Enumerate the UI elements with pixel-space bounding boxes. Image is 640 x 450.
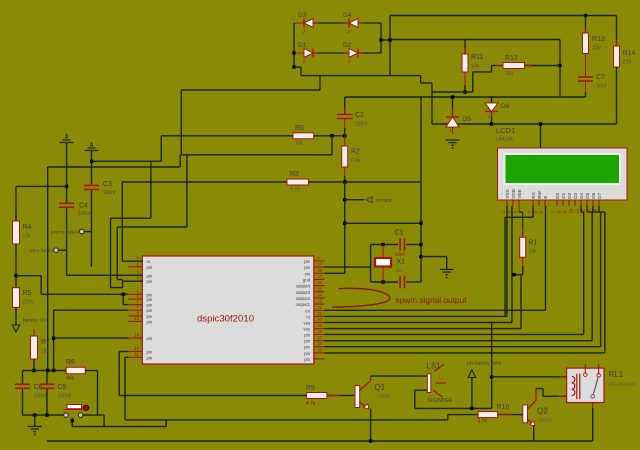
- svg-text:26: 26: [317, 280, 323, 285]
- svg-text:R11: R11: [471, 54, 483, 61]
- svg-text:output2: output2: [296, 296, 311, 301]
- svg-text:11: 11: [134, 352, 139, 357]
- svg-text:R3: R3: [290, 171, 299, 178]
- svg-text:C2: C2: [355, 112, 364, 119]
- svg-text:D6: D6: [591, 192, 596, 198]
- svg-text:21: 21: [317, 311, 323, 316]
- svg-text:pin: pin: [304, 259, 310, 264]
- svg-text:10uf: 10uf: [596, 84, 607, 90]
- svg-text:m: m: [147, 259, 151, 264]
- svg-text:17: 17: [317, 335, 323, 340]
- svg-text:VSS: VSS: [505, 189, 510, 198]
- svg-text:19: 19: [317, 323, 323, 328]
- svg-text:25: 25: [317, 286, 323, 291]
- svg-text:D6: D6: [501, 103, 510, 110]
- svg-text:pin: pin: [304, 345, 310, 350]
- svg-text:pin: pin: [147, 336, 153, 341]
- svg-text:E: E: [543, 196, 548, 199]
- svg-text:pin: pin: [304, 265, 310, 270]
- svg-text:pin: pin: [147, 314, 153, 319]
- svg-text:13: 13: [134, 316, 140, 321]
- svg-text:6.8k: 6.8k: [351, 158, 361, 164]
- svg-text:lm7805: lm7805: [376, 198, 392, 204]
- svg-text:15: 15: [317, 347, 323, 352]
- svg-text:D1: D1: [561, 192, 566, 198]
- svg-text:C3: C3: [103, 181, 112, 188]
- svg-text:D4: D4: [343, 12, 352, 19]
- svg-text:100nF: 100nF: [34, 394, 48, 400]
- svg-text:D0: D0: [555, 192, 560, 198]
- svg-text:D5: D5: [463, 116, 472, 123]
- svg-text:15pF: 15pF: [395, 252, 406, 257]
- svg-text:D7: D7: [597, 192, 602, 198]
- svg-text:pin: pin: [304, 351, 310, 356]
- svg-text:R9: R9: [306, 385, 315, 392]
- svg-text:C4: C4: [79, 203, 88, 210]
- svg-text:23: 23: [317, 299, 323, 304]
- svg-text:D2: D2: [567, 192, 572, 198]
- svg-text:spwm signal output: spwm signal output: [395, 295, 467, 305]
- svg-text:R13: R13: [592, 36, 605, 43]
- svg-text:RS: RS: [531, 192, 536, 199]
- svg-text:10: 10: [569, 208, 574, 213]
- svg-text:battery 12v: battery 12v: [23, 318, 47, 324]
- svg-text:220k: 220k: [23, 300, 34, 306]
- svg-text:OZ-SH-112D: OZ-SH-112D: [609, 382, 637, 388]
- svg-text:vss: vss: [304, 327, 310, 332]
- svg-text:en: en: [305, 308, 310, 313]
- svg-text:20: 20: [317, 317, 323, 322]
- svg-text:C5: C5: [58, 384, 67, 391]
- svg-text:LCD1: LCD1: [496, 126, 515, 135]
- svg-text:14: 14: [134, 333, 140, 338]
- svg-text:D3: D3: [298, 12, 307, 19]
- svg-text:D1: D1: [298, 42, 307, 49]
- svg-text:100nF: 100nF: [58, 394, 72, 400]
- svg-text:pin: pin: [147, 350, 153, 355]
- svg-text:R1: R1: [529, 240, 538, 247]
- svg-text:pin: pin: [147, 297, 153, 302]
- svg-text:22: 22: [317, 305, 323, 310]
- svg-text:pin: pin: [147, 308, 153, 313]
- svg-text:dspic30f2010: dspic30f2010: [197, 314, 254, 325]
- svg-text:R4: R4: [23, 224, 32, 231]
- svg-text:10k: 10k: [471, 64, 480, 70]
- svg-text:pin: pin: [147, 273, 153, 278]
- svg-text:10k: 10k: [529, 249, 538, 255]
- svg-text:LM016L: LM016L: [496, 137, 514, 143]
- svg-text:18: 18: [317, 329, 323, 334]
- svg-text:150: 150: [505, 71, 514, 77]
- svg-text:vin: vin: [305, 271, 311, 276]
- svg-text:VEE: VEE: [517, 189, 522, 198]
- svg-text:12k: 12k: [23, 234, 32, 240]
- svg-text:0.1: 0.1: [397, 268, 404, 273]
- svg-text:pin: pin: [147, 265, 153, 270]
- svg-text:RL1: RL1: [609, 370, 624, 379]
- svg-text:output4: output4: [296, 284, 311, 289]
- svg-text:12v battery point: 12v battery point: [466, 361, 502, 367]
- svg-text:4.7k: 4.7k: [290, 187, 300, 193]
- svg-text:RW: RW: [537, 190, 542, 198]
- svg-text:R8: R8: [66, 359, 75, 366]
- svg-text:4.7k: 4.7k: [306, 401, 316, 407]
- svg-text:output1: output1: [296, 302, 311, 307]
- svg-text:27: 27: [317, 274, 323, 279]
- svg-text:pin: pin: [147, 279, 153, 284]
- svg-text:100nf: 100nf: [103, 190, 116, 196]
- svg-text:pin: pin: [147, 355, 153, 360]
- svg-text:22k: 22k: [623, 60, 632, 66]
- svg-text:c1815: c1815: [539, 418, 552, 424]
- svg-text:24: 24: [317, 293, 323, 298]
- svg-text:R10: R10: [497, 404, 510, 411]
- svg-text:pin: pin: [304, 339, 310, 344]
- svg-text:C1: C1: [395, 230, 404, 237]
- svg-text:10k: 10k: [295, 141, 304, 147]
- svg-text:10: 10: [317, 262, 323, 267]
- svg-text:100nf: 100nf: [78, 211, 91, 217]
- svg-text:pin: pin: [304, 357, 310, 362]
- svg-text:Q2: Q2: [537, 407, 548, 416]
- svg-text:28: 28: [317, 268, 323, 273]
- svg-text:R5: R5: [23, 290, 32, 297]
- svg-text:C7: C7: [596, 74, 605, 81]
- svg-text:X1: X1: [397, 259, 406, 266]
- svg-text:point p lm324: point p lm324: [51, 230, 79, 235]
- svg-text:10k: 10k: [41, 349, 50, 355]
- svg-text:output3: output3: [296, 290, 311, 295]
- svg-text:D5: D5: [585, 192, 590, 198]
- svg-text:100nf: 100nf: [355, 122, 368, 128]
- svg-text:R6: R6: [295, 125, 304, 132]
- svg-text:LS1: LS1: [427, 362, 442, 371]
- svg-text:16: 16: [317, 341, 323, 346]
- svg-text:11: 11: [575, 208, 580, 213]
- svg-text:pin k lm324: pin k lm324: [30, 248, 54, 253]
- svg-text:D4: D4: [579, 192, 584, 198]
- svg-text:R12: R12: [505, 55, 518, 62]
- svg-text:R14: R14: [623, 50, 636, 57]
- svg-text:SOUNDER: SOUNDER: [427, 398, 452, 404]
- svg-text:rs: rs: [306, 314, 310, 319]
- svg-text:vss: vss: [304, 321, 310, 326]
- svg-text:R7: R7: [41, 339, 50, 346]
- svg-text:22k: 22k: [592, 46, 601, 52]
- svg-text:VDD: VDD: [511, 188, 516, 199]
- svg-text:gnd: gnd: [303, 277, 311, 282]
- svg-text:R2: R2: [351, 149, 360, 156]
- svg-text:Q1: Q1: [375, 383, 386, 392]
- svg-text:4.7k: 4.7k: [478, 419, 488, 425]
- svg-text:c1815: c1815: [377, 394, 390, 400]
- svg-text:pin: pin: [304, 332, 310, 337]
- svg-text:pin: pin: [147, 303, 153, 308]
- svg-text:12: 12: [134, 346, 140, 351]
- svg-text:46k: 46k: [66, 376, 75, 382]
- svg-text:pin: pin: [147, 319, 153, 324]
- svg-text:D2: D2: [343, 42, 352, 49]
- svg-text:D3: D3: [573, 192, 578, 198]
